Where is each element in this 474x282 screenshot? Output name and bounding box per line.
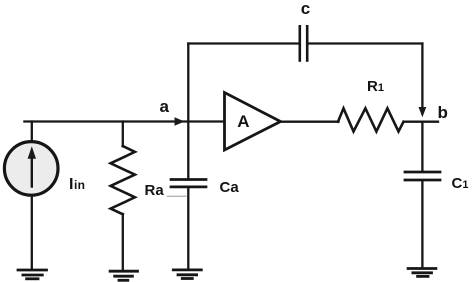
wire: main horizontal input rail to node a	[24, 120, 224, 122]
svg-text:Iin: Iin	[69, 176, 85, 193]
wire: node a vertical rail (feedback riser + down to Ca)	[187, 44, 189, 180]
ground (under C1)	[408, 269, 436, 277]
arrowhead into node b	[419, 107, 427, 117]
resistor R1 zigzag	[338, 108, 404, 131]
svg-text:Ra: Ra	[145, 182, 165, 199]
capacitor c right plate	[306, 26, 309, 60]
wire: Ca to ground	[187, 188, 189, 269]
capacitor c left plate	[298, 26, 301, 60]
capacitor C1 bottom plate	[405, 179, 440, 182]
svg-text:Ca: Ca	[220, 179, 240, 196]
svg-text:b: b	[438, 103, 448, 122]
arrowhead at node a	[175, 117, 185, 125]
svg-text:C1: C1	[452, 175, 469, 192]
current source arrow	[28, 146, 36, 186]
svg-text:A: A	[237, 112, 249, 131]
wire: current source to ground	[31, 196, 33, 270]
wire: R1 to node b (with overhang)	[404, 121, 439, 123]
capacitor C1 top plate	[405, 171, 440, 174]
wire: node b down to C1	[421, 122, 423, 171]
current source U1 circle	[4, 142, 58, 196]
ground (under Iin)	[18, 270, 47, 279]
capacitor Ca bottom plate	[171, 186, 206, 189]
ground (under Ca)	[173, 270, 201, 279]
svg-text:c: c	[301, 0, 310, 18]
wire: right riser down to node b	[421, 44, 423, 109]
wire: top feedback right segment	[308, 42, 422, 44]
ground (under Ra)	[110, 271, 137, 280]
wire: top feedback left segment	[188, 42, 298, 44]
wire: Ra branch top	[122, 122, 124, 147]
wire: current source top stub	[31, 122, 33, 142]
stray gray underline artifact	[168, 195, 187, 197]
wire: amp output to R1	[281, 121, 339, 123]
wire: C1 to ground	[421, 181, 423, 267]
wire: Ra to ground	[122, 214, 124, 271]
svg-text:a: a	[160, 97, 170, 116]
resistor Ra zigzag	[111, 146, 135, 214]
capacitor Ca top plate	[171, 178, 206, 181]
op-amp A triangle	[225, 93, 281, 151]
svg-text:R1: R1	[367, 78, 384, 95]
